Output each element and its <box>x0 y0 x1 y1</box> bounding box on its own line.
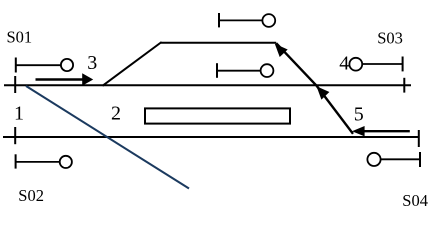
label track 2 <box>111 102 121 124</box>
turnout right diagonal lower segment <box>317 86 353 134</box>
joint tick line1 right <box>403 78 405 93</box>
turnout right diagonal upper segment <box>276 43 317 86</box>
signal S03 symbol <box>349 57 402 72</box>
svg-text:S04: S04 <box>402 191 428 210</box>
joint tick line2 right <box>418 130 420 147</box>
signal top middle symbol <box>219 13 275 27</box>
arrow left on line 2 <box>352 126 410 136</box>
label track 1 <box>14 103 24 125</box>
label S02 <box>18 186 44 205</box>
svg-text:S01: S01 <box>7 27 33 46</box>
label point 4 <box>339 53 349 75</box>
signal lower middle symbol <box>217 63 273 78</box>
svg-text:1: 1 <box>14 103 24 125</box>
track main line 2 <box>3 136 420 138</box>
label point 3 <box>87 52 97 74</box>
joint tick line1 left <box>14 76 16 93</box>
arrowhead upper diagonal <box>275 44 288 57</box>
joint tick line2 left <box>14 127 16 144</box>
svg-text:4: 4 <box>339 53 349 75</box>
label point 5 <box>354 103 364 125</box>
blue route line <box>26 86 189 189</box>
arrow right on line 1 <box>36 73 94 85</box>
platform rectangle <box>145 108 290 123</box>
signal S04 symbol <box>367 152 420 167</box>
track main line 1 <box>4 84 411 86</box>
signal S01 symbol <box>16 58 73 73</box>
svg-text:5: 5 <box>354 103 364 125</box>
label S04 <box>402 191 428 210</box>
svg-text:S03: S03 <box>377 29 403 48</box>
svg-text:S02: S02 <box>18 186 44 205</box>
svg-text:3: 3 <box>87 52 97 74</box>
svg-text:2: 2 <box>111 102 121 124</box>
arrowhead middle diagonal <box>317 86 330 99</box>
signal S02 symbol <box>16 154 72 168</box>
turnout left diagonal <box>103 42 162 86</box>
track loop siding <box>161 42 277 44</box>
label S03 <box>377 29 403 48</box>
label S01 <box>7 27 33 46</box>
